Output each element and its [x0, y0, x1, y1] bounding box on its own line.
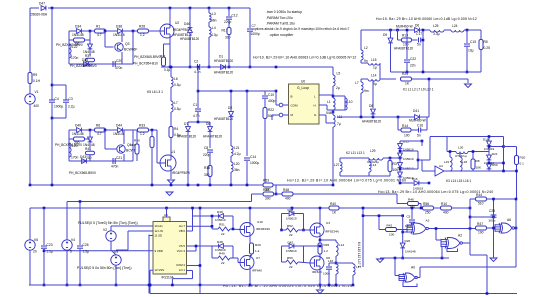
wire K3 ladder top	[488, 137, 490, 141]
wire L22 top	[68, 40, 70, 44]
svg-text:A3: A3	[426, 219, 430, 223]
inductor L6	[171, 77, 173, 87]
wire C3 return	[52, 117, 66, 119]
junction C26 rail	[79, 200, 82, 203]
junction x407 bus	[406, 71, 409, 74]
wire y258	[380, 257, 449, 259]
svg-text:A0: A0	[411, 266, 415, 270]
svg-text:R47: R47	[477, 222, 483, 226]
ground R24	[465, 84, 472, 88]
wire R8 bottom	[472, 169, 474, 171]
wire to R50	[252, 193, 264, 195]
voltage source V2	[106, 231, 116, 241]
junction H5a c	[328, 284, 331, 287]
inductor L29	[369, 158, 383, 160]
junction loop3 bl	[280, 229, 283, 232]
junction ladder mid	[417, 159, 420, 162]
svg-text:D35: D35	[82, 58, 88, 62]
svg-text:L6: L6	[174, 77, 178, 81]
resistor R37	[86, 58, 95, 62]
ground above U6	[166, 192, 173, 196]
wire y267 long	[420, 266, 516, 268]
svg-text:C3: C3	[69, 97, 73, 101]
wire V9 tap	[116, 249, 128, 251]
wire L13 top	[368, 158, 370, 162]
wire loop4 to mid	[304, 245, 321, 247]
capacitor C21	[113, 158, 115, 164]
wire D6b to filter	[420, 29, 430, 31]
wire C26 down	[79, 249, 81, 285]
junction VCC-VS	[195, 245, 198, 248]
wire bus H2 right	[201, 66, 334, 68]
svg-text:MUR460-W: MUR460-W	[409, 119, 426, 123]
svg-text:R14: R14	[402, 124, 408, 128]
svg-text:L30: L30	[458, 146, 463, 150]
wire bus H2 left	[161, 66, 197, 68]
svg-text:5n: 5n	[417, 43, 421, 47]
wire R33 right	[148, 129, 157, 131]
junction H4 x52	[51, 184, 54, 187]
svg-text:400p: 400p	[268, 99, 276, 103]
svg-text:.PARAM Tum5.16u: .PARAM Tum5.16u	[266, 21, 295, 25]
wire D7 to bus	[187, 132, 189, 185]
junction R8	[472, 150, 475, 153]
junction U2 emitter	[169, 66, 172, 69]
wire K2 bottom	[340, 175, 390, 177]
junction y258 b	[441, 257, 444, 260]
svg-text:R46: R46	[408, 198, 414, 202]
svg-text:400: 400	[34, 104, 40, 108]
resistor R30	[135, 144, 139, 154]
junction C1 bottom	[197, 121, 200, 124]
svg-text:R20: R20	[520, 156, 526, 160]
junction loop1 left	[211, 225, 214, 228]
svg-text:R6: R6	[96, 124, 100, 128]
svg-text:L16: L16	[328, 259, 333, 263]
wire L23 bottom	[68, 157, 70, 161]
wire U1 emitter	[170, 171, 172, 180]
wire A0 out	[417, 277, 421, 279]
svg-text:D1: D1	[219, 55, 223, 59]
diode D50	[487, 164, 492, 169]
resistor R14	[401, 128, 411, 132]
junction cluster2 top	[89, 129, 92, 132]
junction x487 bus	[486, 292, 489, 295]
capacitor C23	[41, 246, 47, 248]
transistor U7	[240, 256, 254, 270]
junction port B	[275, 90, 278, 93]
wire to R42	[379, 229, 386, 231]
svg-text:C25: C25	[489, 209, 495, 213]
wire loop3 left	[281, 214, 283, 231]
wire R14 lead	[398, 129, 401, 131]
svg-text:C23: C23	[47, 243, 53, 247]
wire COM vertical	[199, 208, 201, 285]
inductor L2	[361, 50, 363, 60]
svg-text:0.1H: 0.1H	[33, 79, 41, 83]
wire C23 down	[43, 249, 45, 285]
svg-text:1N5019: 1N5019	[286, 249, 297, 253]
junction ladder bottom	[399, 182, 402, 185]
svg-text:Ho=10. Bz=.29 Br=.10 AH0.00063: Ho=10. Bz=.29 Br=.10 AH0.00063 Lm=0.1dB …	[253, 56, 356, 60]
wire V9 down	[115, 265, 117, 285]
wire L30 riser	[446, 137, 448, 152]
wire L3 top	[208, 8, 210, 13]
wire LO left	[172, 278, 192, 280]
wire R38 right	[84, 138, 90, 140]
diode D45z	[88, 137, 93, 142]
capacitor C7	[247, 29, 253, 31]
inductor L4	[209, 27, 211, 37]
wire down cluster2	[104, 130, 106, 139]
wire D2 top	[230, 91, 232, 111]
junction R47-A6	[492, 227, 495, 230]
svg-text:1.2: 1.2	[140, 33, 145, 37]
svg-text:9 VDD: 9 VDD	[155, 249, 163, 253]
junction ladder 2	[399, 168, 402, 171]
svg-text:V2: V2	[103, 228, 107, 232]
diode D47	[41, 6, 46, 11]
svg-text:100: 100	[478, 231, 484, 235]
svg-text:C16: C16	[417, 124, 423, 128]
svg-text:.option nooptiter: .option nooptiter	[269, 33, 294, 37]
svg-text:HFA08TB120: HFA08TB120	[214, 71, 233, 75]
wire C19 down	[328, 270, 330, 285]
svg-text:D48: D48	[217, 240, 223, 244]
wire cluster2 left rail	[68, 130, 70, 161]
svg-text:HFA08TB120: HFA08TB120	[214, 117, 233, 121]
svg-text:1000µ: 1000µ	[250, 161, 259, 165]
junction U8 bus	[319, 284, 322, 287]
wire R29 link2	[250, 255, 252, 257]
inductor L17	[353, 264, 355, 275]
junction x407 top	[406, 29, 409, 32]
wire C3 top lead	[65, 85, 67, 100]
svg-text:L13: L13	[371, 163, 376, 167]
wire port B drop	[275, 91, 277, 105]
op-amp U0 G_Loop	[289, 84, 320, 124]
svg-text:R1: R1	[96, 25, 100, 29]
capacitor C5	[409, 220, 415, 222]
resistor R40	[329, 206, 339, 210]
junction ladder-A4	[421, 140, 424, 143]
svg-text:R51: R51	[219, 223, 225, 227]
svg-text:L27: L27	[334, 163, 340, 167]
resistor R48	[282, 192, 293, 196]
wire A6 input rail	[493, 217, 495, 233]
wire bus corner down	[275, 185, 277, 194]
junction R6 out	[104, 129, 107, 132]
svg-text:D47: D47	[288, 208, 294, 212]
svg-text:V4: V4	[71, 238, 75, 242]
svg-text:R17: R17	[222, 29, 228, 33]
junction x470 C25	[469, 216, 472, 219]
junction L19	[449, 150, 452, 153]
wire VCC riser	[195, 246, 197, 251]
wire rail to Q4 base	[104, 139, 106, 149]
wire L14 to R24	[380, 78, 396, 80]
svg-text:L23: L23	[72, 144, 78, 148]
svg-text:22: 22	[221, 261, 225, 265]
capacitor C20	[113, 61, 115, 67]
wire D34 to R1	[82, 30, 95, 32]
wire L27 bottom	[339, 172, 341, 176]
svg-text:R53: R53	[263, 179, 269, 183]
capacitor C10	[262, 96, 268, 98]
wire down from top rail	[104, 31, 106, 40]
inductor L18	[460, 157, 462, 171]
svg-text:R9: R9	[33, 73, 37, 77]
wire SD down	[148, 235, 150, 294]
wire R46 right	[419, 203, 422, 205]
junction D46	[189, 66, 192, 69]
ground U8	[317, 290, 324, 294]
svg-text:C26: C26	[83, 243, 89, 247]
wire A3 in3 stub	[403, 231, 407, 233]
wire A2 out	[463, 242, 471, 244]
svg-text:L14: L14	[371, 74, 377, 78]
wire R9 to V1	[29, 84, 31, 94]
junction x200 rail	[199, 207, 202, 210]
junction VB rail	[191, 207, 194, 210]
wire L20 to bus	[230, 172, 232, 185]
svg-text:400: 400	[443, 211, 449, 215]
wire A6 out	[515, 227, 517, 229]
resistor R56	[423, 206, 434, 210]
wire R42 left leg	[378, 216, 380, 230]
resistor R17	[227, 28, 231, 35]
svg-text:200: 200	[86, 156, 92, 160]
svg-text:0.1: 0.1	[520, 162, 525, 166]
wire D46 top	[189, 8, 191, 27]
junction LO bus	[171, 284, 174, 287]
capacitor C1	[195, 109, 201, 111]
svg-text:100: 100	[403, 43, 409, 47]
wire A2 in from y258	[441, 246, 443, 258]
junction filter left top	[422, 29, 425, 32]
wire to R44	[470, 198, 476, 200]
wire R3 top	[389, 158, 391, 161]
resistor R19	[402, 38, 412, 42]
wire R45 bottom	[319, 254, 321, 257]
wire U7 source	[249, 270, 251, 286]
svg-text:D47: D47	[39, 2, 45, 6]
wire K3 ladder 1	[488, 146, 490, 155]
svg-text:1000p: 1000p	[251, 32, 260, 36]
svg-text:HFA08TB120: HFA08TB120	[214, 59, 233, 63]
svg-text:L15: L15	[371, 58, 377, 62]
svg-text:4.7n: 4.7n	[193, 114, 200, 118]
inductor L16b	[336, 264, 338, 274]
svg-text:20: 20	[33, 250, 37, 254]
svg-text:1.2: 1.2	[324, 249, 329, 253]
wire C1 bottom	[197, 112, 199, 122]
wire C17 to filter	[421, 39, 423, 41]
svg-text:L12: L12	[339, 243, 344, 247]
svg-text:HFA08TB120: HFA08TB120	[394, 47, 413, 51]
wire Ho to loop1	[187, 225, 213, 227]
junction A3-x470	[469, 227, 472, 230]
logic gate A6	[495, 223, 514, 233]
wire R11 top	[163, 44, 165, 57]
svg-text:L20: L20	[234, 162, 240, 166]
inductor L21	[231, 146, 233, 156]
svg-text:VCC 3: VCC 3	[177, 249, 186, 253]
wire R49 out	[230, 257, 238, 259]
junction ladder 1	[399, 150, 402, 153]
wire R50z a	[282, 261, 287, 263]
wire R20 bottom	[516, 165, 518, 200]
junction COM	[199, 264, 202, 267]
wire D48 a	[212, 245, 218, 247]
junction x516 R44	[515, 198, 518, 201]
wire C16 right leg	[426, 117, 428, 130]
wire R17 bottom	[228, 35, 230, 68]
svg-text:R45: R45	[324, 243, 330, 247]
svg-text:510: 510	[478, 202, 484, 206]
resistor R41	[86, 151, 95, 155]
svg-text:U1: U1	[171, 150, 175, 154]
svg-text:V1: V1	[35, 90, 39, 94]
svg-text:96n: 96n	[211, 19, 217, 23]
wire U0 G to L11	[326, 122, 333, 124]
junction VSS	[149, 284, 152, 287]
junction U7 bus	[249, 284, 252, 287]
wire R31 top	[151, 130, 153, 137]
wire y216	[363, 215, 403, 217]
wire C8 to R16	[209, 153, 211, 166]
wire U0 G bend	[325, 115, 327, 123]
diode D8	[371, 109, 376, 114]
junction x52 y118	[51, 117, 54, 120]
svg-text:4.7n: 4.7n	[194, 70, 201, 74]
wire to Q4 base	[105, 148, 117, 150]
svg-text:R50: R50	[287, 256, 293, 260]
inductor L19	[450, 157, 452, 171]
wire L7 to R4	[170, 112, 172, 127]
svg-text:Ho=15. Bz=.29 Br=.10 AH0.00060: Ho=15. Bz=.29 Br=.10 AH0.00060 Lm=0.1dB …	[376, 17, 477, 21]
wire R52 to gate	[298, 229, 310, 231]
wire D9 top lead	[390, 30, 392, 38]
resistor R51	[218, 227, 230, 231]
wire A0 feed	[395, 275, 399, 277]
wire C5 to A3	[411, 223, 413, 226]
wire R30 top	[136, 130, 138, 144]
wire R29 top link	[250, 242, 252, 244]
wire H y91	[198, 90, 265, 92]
wire VB stub	[187, 230, 193, 232]
diode D45	[398, 153, 403, 158]
wire x407 upper	[406, 30, 408, 59]
wire L29 right	[383, 157, 400, 159]
diode D9	[388, 38, 393, 43]
wire to D40	[69, 129, 76, 131]
svg-text:IRF9Z34N: IRF9Z34N	[256, 227, 270, 231]
wire top rail right a	[361, 29, 414, 31]
wire SD stub	[149, 235, 153, 237]
resistor R22	[263, 108, 267, 119]
wire R19 to C17	[412, 39, 418, 41]
junction A3 out tap	[435, 227, 438, 230]
wire C10-R22	[264, 99, 266, 107]
wire Q3 collector up	[121, 31, 123, 42]
resistor R4	[169, 127, 173, 138]
logic gate A2	[441, 238, 462, 249]
svg-text:R29: R29	[255, 243, 261, 247]
resistor R47	[476, 226, 487, 230]
wire V1 to bottom bus	[29, 104, 31, 185]
wire x247 down	[246, 91, 248, 156]
wire L6 to L7	[170, 87, 172, 101]
wire D2 to L21	[230, 117, 232, 146]
wire D7 top	[187, 122, 189, 126]
op-amp A4 buffer	[435, 166, 444, 176]
svg-text:D8: D8	[369, 104, 373, 108]
svg-text:L7: L7	[355, 81, 359, 85]
wire VS to loop2	[187, 245, 213, 247]
inductor L24	[451, 30, 464, 32]
svg-text:12 LIN: 12 LIN	[155, 229, 163, 233]
wire R30 bottom	[136, 154, 138, 161]
wire top bus	[48, 7, 250, 9]
wire U1 gate stub	[157, 162, 161, 164]
IC U6	[163, 217, 170, 222]
svg-text:22: 22	[289, 233, 293, 237]
wire top bus left of D47	[30, 7, 39, 9]
wire L18 top	[459, 152, 461, 158]
wire L1 to L11	[332, 110, 334, 115]
wire A0 up	[419, 267, 421, 278]
inductor L7b	[361, 82, 363, 93]
junction D9 top	[389, 29, 392, 32]
wire to R36	[69, 39, 74, 41]
wire x516 down	[515, 199, 517, 267]
svg-text:HFA08TB120: HFA08TB120	[203, 135, 222, 139]
wire gnd stem	[467, 79, 469, 83]
svg-text:10K: 10K	[476, 166, 482, 170]
svg-text:HFA08TB120: HFA08TB120	[362, 120, 381, 124]
wire R1 to D38	[105, 30, 117, 32]
wire loop1 right	[232, 216, 234, 229]
inductor L23	[69, 143, 71, 157]
junction C1	[197, 66, 200, 69]
wire L14 left	[361, 78, 368, 80]
wire cluster1 bottom rail	[69, 63, 133, 65]
junction y194	[275, 193, 278, 196]
wire R41 bottom	[89, 155, 91, 161]
port B	[279, 103, 283, 107]
diode D16b	[414, 181, 419, 186]
wire to A6 rail	[470, 216, 494, 218]
svg-text:VB 6: VB 6	[179, 229, 186, 233]
svg-text:D50: D50	[492, 163, 498, 167]
wire to R38	[69, 138, 74, 140]
wire L30 right	[468, 151, 489, 153]
wire L7b bottom	[360, 93, 362, 117]
svg-text:L7: L7	[174, 101, 178, 105]
wire filter left vertical	[422, 30, 424, 72]
wire C12-R17	[228, 20, 230, 28]
junction R14 left	[397, 116, 400, 119]
wire R29 bottom	[251, 254, 253, 256]
wire bus H4	[30, 184, 263, 186]
wire R50z to gate	[298, 262, 310, 263]
wire x198 67-91	[197, 67, 199, 91]
wire K2 top	[340, 157, 369, 159]
wire bus to L6	[170, 67, 172, 77]
junction A3 in3	[401, 231, 404, 234]
svg-text:2µ: 2µ	[336, 86, 340, 90]
